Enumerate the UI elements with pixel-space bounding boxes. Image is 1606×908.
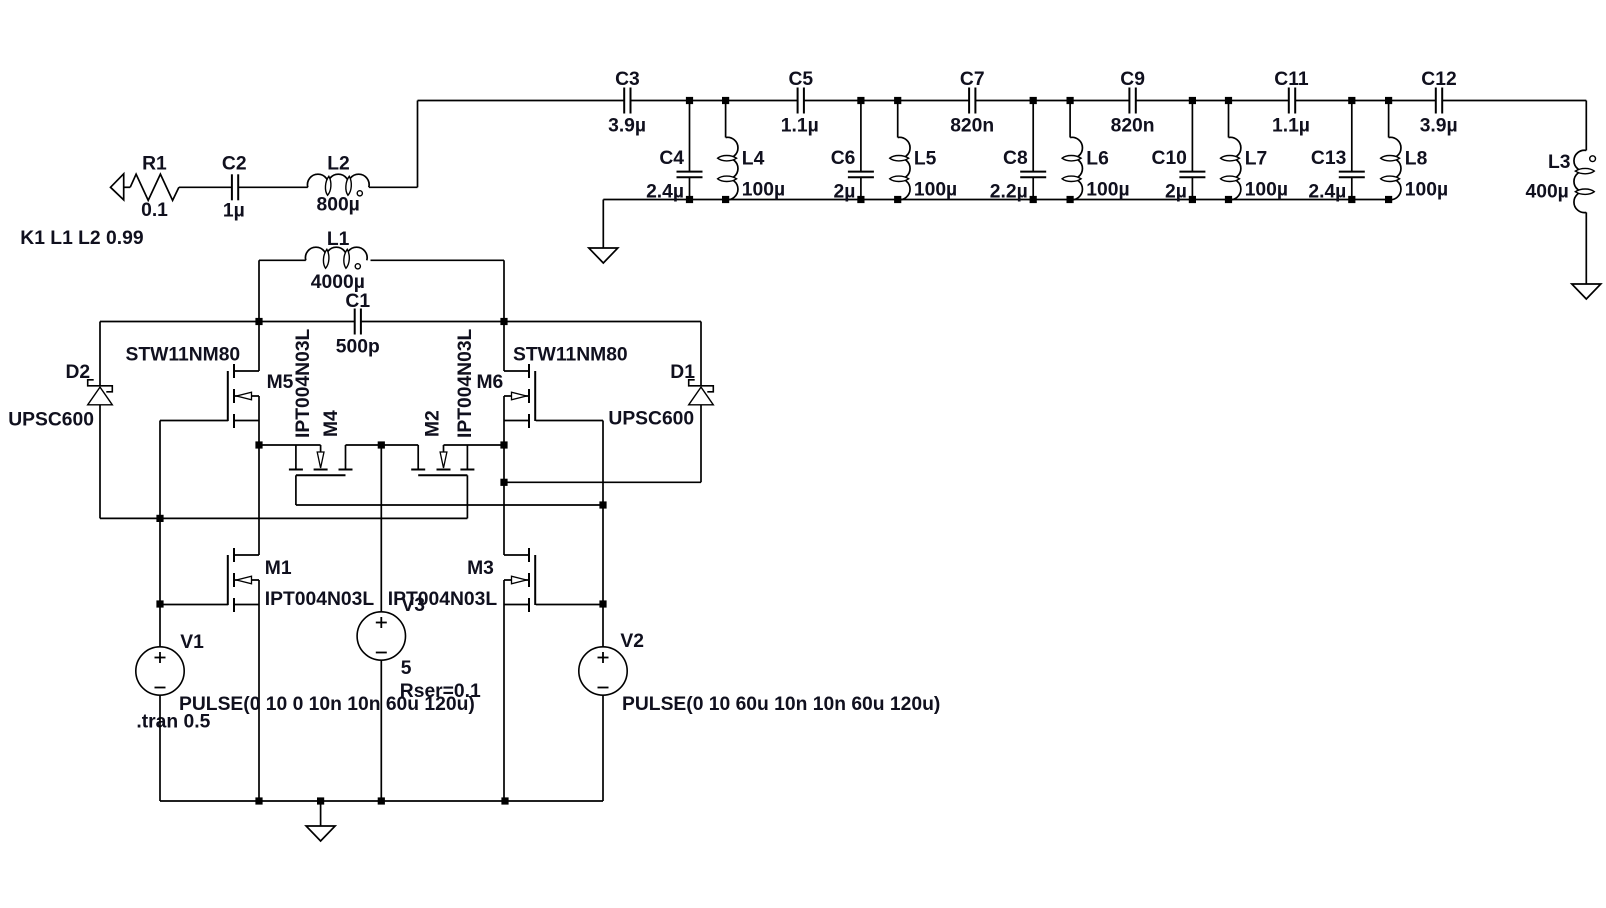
label L3 — [1548, 152, 1571, 173]
wire top rail seg3 — [804, 100, 968, 102]
label 3.9u C12 — [1420, 116, 1458, 137]
svg-text:D2: D2 — [66, 362, 91, 383]
svg-text:100µ: 100µ — [742, 180, 785, 201]
wire L1 right — [371, 260, 505, 321]
svg-text:STW11NM80: STW11NM80 — [513, 345, 628, 366]
svg-text:IPT004N03L: IPT004N03L — [293, 328, 314, 438]
label D1 — [670, 362, 695, 383]
label STW11NM80 M6 — [513, 345, 628, 366]
svg-text:D1: D1 — [670, 362, 695, 383]
wire D1 top — [700, 322, 702, 386]
inductor L2 — [307, 174, 369, 196]
junction dots C6/L5 — [857, 97, 901, 203]
svg-text:K1 L1 L2 0.99: K1 L1 L2 0.99 — [20, 228, 143, 249]
label 820n C7 — [950, 116, 994, 137]
label R1 — [142, 153, 167, 174]
wire riser — [417, 101, 419, 188]
wire L4 top — [725, 101, 727, 138]
label 2.4µ C13 — [1308, 182, 1346, 203]
svg-text:IPT004N03L: IPT004N03L — [265, 589, 375, 610]
wire V1 bottom — [159, 695, 161, 801]
label 1.1u C11 — [1272, 116, 1310, 137]
svg-text:V1: V1 — [180, 632, 204, 653]
capacitor C8 — [1020, 172, 1046, 178]
capacitor C1 — [355, 309, 361, 335]
ground G1 (output) — [1572, 284, 1601, 299]
label C9 — [1120, 69, 1145, 90]
label 0.1 — [141, 200, 168, 221]
transistor M5 — [228, 364, 259, 428]
wire C10 bottom — [1191, 177, 1193, 199]
diode D2 — [88, 380, 113, 405]
label IPT004N03L M3 — [388, 589, 498, 610]
label C12 — [1421, 69, 1456, 90]
label L7 — [1245, 149, 1268, 170]
svg-text:C8: C8 — [1003, 148, 1028, 169]
wire top rail seg5 — [1136, 100, 1288, 102]
capacitor C4 — [677, 172, 703, 178]
wire M3 drain — [503, 482, 505, 555]
svg-text:2µ: 2µ — [1165, 182, 1187, 203]
svg-text:1.1µ: 1.1µ — [781, 116, 819, 137]
wire M2 gate — [466, 475, 468, 518]
svg-text:UPSC600: UPSC600 — [608, 409, 694, 430]
wire V2 bottom — [602, 695, 604, 801]
wire L6 top — [1069, 101, 1071, 138]
label PULSE V2 — [622, 694, 940, 715]
label L6 — [1086, 149, 1109, 170]
svg-text:2.2µ: 2.2µ — [990, 182, 1028, 203]
diode D1 — [689, 380, 714, 405]
label L8 — [1405, 149, 1428, 170]
svg-text:V3: V3 — [401, 595, 425, 616]
junction dot right gate col — [599, 501, 606, 508]
label C13 — [1311, 148, 1347, 169]
svg-text:PULSE(0 10 0 10n 10n 60u 120u): PULSE(0 10 0 10n 10n 60u 120u) — [179, 694, 475, 715]
label C2 — [222, 153, 247, 174]
label V2 — [620, 631, 644, 652]
label M6 — [477, 372, 504, 393]
svg-text:V2: V2 — [620, 631, 644, 652]
junction dot L1 left — [255, 318, 262, 325]
wire L3-gnd — [1585, 212, 1587, 284]
label C3 — [615, 69, 640, 90]
label 2µ C10 — [1165, 182, 1187, 203]
label C1 — [345, 291, 370, 312]
junction dots C8/L6 — [1030, 97, 1074, 203]
ground G4 (rotated, input side) — [111, 174, 131, 200]
capacitor C12 — [1436, 88, 1442, 114]
label 100u L5 — [914, 180, 957, 201]
svg-text:800µ: 800µ — [317, 195, 360, 216]
label M5 — [267, 372, 294, 393]
junction dot M6 source — [500, 441, 507, 448]
capacitor C7 — [969, 88, 975, 114]
wire right gate column — [602, 421, 604, 647]
capacitor C13 — [1339, 172, 1365, 178]
label IPT004N03L M2 (vertical) — [455, 328, 476, 438]
capacitor C11 — [1289, 88, 1295, 114]
capacitor C6 — [848, 172, 874, 178]
svg-text:1.1µ: 1.1µ — [1272, 116, 1310, 137]
wire mid rail seg2 — [346, 444, 419, 446]
svg-text:100µ: 100µ — [1086, 180, 1129, 201]
svg-text:C7: C7 — [960, 69, 985, 90]
svg-text:.tran 0.5: .tran 0.5 — [136, 712, 210, 733]
wire L1 left — [259, 260, 306, 321]
label C10 — [1152, 148, 1187, 169]
wire C8 bottom — [1032, 177, 1034, 199]
transistor M4 — [289, 445, 353, 475]
svg-text:1µ: 1µ — [223, 201, 245, 222]
wire C4 top — [689, 101, 691, 172]
junction dots C13/L8 — [1348, 97, 1392, 203]
svg-text:400µ: 400µ — [1526, 182, 1569, 203]
label IPT004N03L M4 (vertical) — [293, 328, 314, 438]
label L4 — [742, 149, 765, 170]
svg-text:L5: L5 — [914, 149, 937, 170]
junction dot L1 right — [500, 318, 507, 325]
wire left gate column — [159, 421, 161, 647]
wire M5 drain — [258, 322, 260, 372]
wire D2 top — [99, 322, 101, 386]
wire M6 drain — [503, 322, 505, 372]
wire L7 top — [1228, 101, 1230, 138]
source V1 — [136, 647, 184, 695]
junction dot M6 source low — [500, 479, 507, 486]
wire cross D2-M2gate — [100, 517, 467, 519]
transistor M1 — [228, 548, 259, 612]
label 100u L8 — [1405, 180, 1448, 201]
capacitor C10 — [1179, 172, 1205, 178]
svg-text:C3: C3 — [615, 69, 640, 90]
svg-text:C5: C5 — [789, 69, 814, 90]
svg-text:0.1: 0.1 — [141, 200, 168, 221]
wire L2-riser — [369, 186, 418, 188]
junction dots C10/L7 — [1189, 97, 1232, 203]
wire R1-C2 — [179, 186, 232, 188]
label STW11NM80 M5 — [126, 345, 241, 366]
label 2.4µ C4 — [646, 182, 684, 203]
wire top rail seg4 — [976, 100, 1129, 102]
wire mid rail seg1 — [259, 444, 321, 446]
wire C2-L2 — [238, 186, 307, 188]
svg-text:C2: C2 — [222, 153, 247, 174]
label L2 — [327, 153, 350, 174]
label UPSC600 D1 — [608, 409, 694, 430]
label K1 statement — [20, 228, 143, 249]
junction dot V3 top — [378, 441, 385, 448]
svg-text:STW11NM80: STW11NM80 — [126, 345, 241, 366]
wire C13 bottom — [1351, 177, 1353, 199]
svg-text:C12: C12 — [1421, 69, 1456, 90]
inductor L8 — [1381, 137, 1401, 199]
source V2 — [579, 647, 627, 695]
wire M6 gate — [536, 420, 603, 422]
label 100u L7 — [1245, 180, 1288, 201]
wire C4 bottom — [689, 177, 691, 199]
svg-text:100µ: 100µ — [914, 180, 957, 201]
label M4 (vertical) — [321, 410, 342, 437]
source V3 — [357, 612, 405, 660]
svg-text:C10: C10 — [1152, 148, 1187, 169]
svg-text:2.4µ: 2.4µ — [1308, 182, 1346, 203]
svg-text:L1: L1 — [327, 229, 350, 250]
label C6 — [831, 148, 856, 169]
inductor L3 — [1574, 150, 1596, 212]
wire C6 bottom — [860, 177, 862, 199]
svg-text:L8: L8 — [1405, 149, 1428, 170]
svg-text:820n: 820n — [950, 116, 994, 137]
wire D1 bottom — [504, 405, 701, 483]
svg-text:L2: L2 — [327, 153, 350, 174]
label M2 (vertical) — [423, 410, 444, 437]
transistor M3 — [504, 548, 535, 612]
wire C13 top — [1351, 101, 1353, 172]
junction dot M3 gate — [599, 600, 606, 607]
wire top rail seg6 — [1296, 100, 1435, 102]
svg-text:UPSC600: UPSC600 — [8, 410, 94, 431]
wire V3 top — [380, 445, 382, 612]
svg-text:C13: C13 — [1311, 148, 1347, 169]
capacitor C2 — [232, 174, 238, 200]
wire M5 gate — [160, 420, 228, 422]
label 100u L6 — [1086, 180, 1129, 201]
ground G3 (bottom) — [306, 826, 335, 841]
capacitor C5 — [798, 88, 804, 114]
label L5 — [914, 149, 937, 170]
wire V3 bottom — [380, 660, 382, 801]
wire L5 top — [897, 101, 899, 138]
svg-text:3.9µ: 3.9µ — [1420, 116, 1458, 137]
label C5 — [789, 69, 814, 90]
transistor M2 — [411, 445, 474, 475]
inductor L1 — [305, 247, 367, 269]
junction dot M5 source — [255, 441, 262, 448]
svg-text:M1: M1 — [265, 558, 292, 579]
wire top rail seg1 — [418, 100, 625, 102]
wire mid rail seg3 — [444, 444, 505, 446]
label 400u — [1526, 182, 1569, 203]
wire gnd stub bottom — [320, 801, 322, 826]
svg-text:IPT004N03L: IPT004N03L — [455, 328, 476, 438]
label 3.9u C3 — [608, 116, 646, 137]
wire ladder bottom rail — [603, 199, 1388, 201]
svg-text:820n: 820n — [1111, 116, 1155, 137]
label .tran — [136, 712, 210, 733]
label 100u L4 — [742, 180, 785, 201]
label L1 — [327, 229, 350, 250]
resistor R1 — [130, 174, 179, 200]
svg-text:500p: 500p — [336, 337, 380, 358]
wire D2 bottom — [99, 405, 101, 519]
label C7 — [960, 69, 985, 90]
label UPSC600 D2 — [8, 410, 94, 431]
wire M3 gate — [536, 604, 603, 606]
svg-text:M5: M5 — [267, 372, 294, 393]
wire L8 top — [1388, 101, 1390, 138]
label C4 — [659, 148, 684, 169]
svg-text:C1: C1 — [345, 291, 370, 312]
label 800u — [317, 195, 360, 216]
capacitor C9 — [1129, 88, 1135, 114]
label 500p — [336, 337, 380, 358]
inductor L7 — [1221, 137, 1241, 199]
label V3 — [401, 595, 425, 616]
label 1.1u C5 — [781, 116, 819, 137]
svg-text:M4: M4 — [321, 410, 342, 437]
wire gnd stub ladder — [602, 200, 604, 249]
label 5 — [401, 658, 412, 679]
label 820n C9 — [1111, 116, 1155, 137]
svg-text:C9: C9 — [1120, 69, 1145, 90]
transistor M6 — [504, 364, 535, 428]
wire top rail seg7 — [1443, 100, 1587, 102]
wire C6 top — [860, 101, 862, 172]
wire M3 source — [503, 580, 505, 801]
junction dots bottom rail — [255, 797, 508, 804]
svg-text:2µ: 2µ — [834, 182, 856, 203]
svg-text:M3: M3 — [467, 558, 494, 579]
label M3 — [467, 558, 494, 579]
svg-text:L7: L7 — [1245, 149, 1268, 170]
wire C10 top — [1191, 101, 1193, 172]
inductor L6 — [1062, 137, 1082, 199]
label C8 — [1003, 148, 1028, 169]
label C11 — [1274, 69, 1309, 90]
svg-text:C6: C6 — [831, 148, 856, 169]
svg-text:R1: R1 — [142, 153, 167, 174]
svg-text:L4: L4 — [742, 149, 765, 170]
junction dot left gate col — [156, 515, 163, 522]
svg-text:L6: L6 — [1086, 149, 1109, 170]
svg-text:C4: C4 — [659, 148, 684, 169]
svg-text:100µ: 100µ — [1405, 180, 1448, 201]
label V1 — [180, 632, 204, 653]
label Rser — [400, 681, 481, 702]
svg-text:4000µ: 4000µ — [311, 272, 365, 293]
wire M4 gate — [296, 475, 603, 505]
wire bridge rail left — [100, 321, 355, 323]
label M1 — [265, 558, 292, 579]
label D2 — [66, 362, 91, 383]
label IPT004N03L M1 — [265, 589, 375, 610]
svg-text:2.4µ: 2.4µ — [646, 182, 684, 203]
wire M1 gate — [160, 604, 228, 606]
wire M6 source — [503, 396, 505, 482]
ground G2 (ladder) — [589, 248, 618, 263]
svg-text:3.9µ: 3.9µ — [608, 116, 646, 137]
wire C8 top — [1032, 101, 1034, 172]
wire bottom rail — [160, 800, 603, 802]
label 4000u — [311, 272, 365, 293]
junction dot M1 gate — [156, 600, 163, 607]
svg-text:PULSE(0 10 60u 10n 10n 60u 120: PULSE(0 10 60u 10n 10n 60u 120u) — [622, 694, 940, 715]
wire M1 drain — [258, 445, 260, 555]
wire M5 source — [258, 396, 260, 445]
wire top rail seg2 — [631, 100, 798, 102]
capacitor C3 — [624, 88, 630, 114]
label 1u — [223, 201, 245, 222]
svg-text:5: 5 — [401, 658, 412, 679]
inductor L5 — [890, 137, 910, 199]
wire M1 source — [258, 580, 260, 801]
svg-text:L3: L3 — [1548, 152, 1571, 173]
wire L3 top — [1585, 101, 1587, 151]
svg-text:100µ: 100µ — [1245, 180, 1288, 201]
svg-text:C11: C11 — [1274, 69, 1309, 90]
junction dots C4/L4 — [686, 97, 729, 203]
label 2µ C6 — [834, 182, 856, 203]
wire bridge rail right — [361, 321, 701, 323]
label PULSE V1 — [179, 694, 475, 715]
label 2.2µ C8 — [990, 182, 1028, 203]
inductor L4 — [718, 137, 738, 199]
svg-text:M6: M6 — [477, 372, 504, 393]
svg-text:M2: M2 — [423, 410, 444, 437]
